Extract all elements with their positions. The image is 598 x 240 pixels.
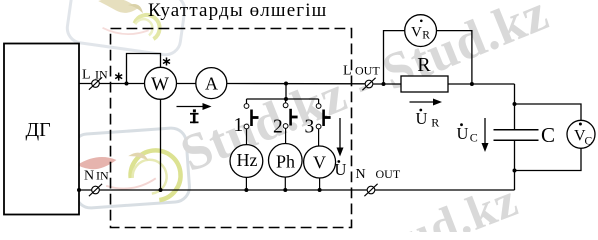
wire Ph meter lead xyxy=(284,177,286,190)
wire terminal to resistor xyxy=(373,83,402,85)
svg-text:C: C xyxy=(541,123,555,147)
voltmeter V_C xyxy=(567,120,595,148)
svg-text:U: U xyxy=(416,109,428,128)
wire Hz meter lead xyxy=(245,177,247,190)
V_C branch nodes xyxy=(513,102,517,106)
capacitor C plates xyxy=(494,129,539,131)
node to switches xyxy=(284,82,288,86)
terminal L OUT xyxy=(362,78,375,90)
watermark logo bottom-left xyxy=(72,127,191,209)
label U_R dotted xyxy=(416,109,440,130)
svg-text:A: A xyxy=(205,74,218,94)
voltage arrow U_R xyxy=(410,99,443,106)
svg-text:R: R xyxy=(431,116,439,130)
label L OUT xyxy=(343,63,380,78)
junction Hz-N bus xyxy=(244,188,248,192)
svg-text:2: 2 xyxy=(273,117,283,138)
dashed boundary of power meter xyxy=(111,29,352,228)
wire L from generator to terminal xyxy=(79,83,145,85)
svg-text:R: R xyxy=(417,54,431,76)
switch S1 xyxy=(244,99,258,145)
node V_R tap left xyxy=(382,82,386,86)
wattmeter W xyxy=(145,67,177,99)
wire V_R branch left xyxy=(384,31,405,84)
label N IN xyxy=(84,168,109,183)
node on bus xyxy=(284,97,288,101)
svg-text:W: W xyxy=(151,74,169,95)
junction W-N bus xyxy=(159,188,163,192)
capacitor branch vertical wire bottom xyxy=(514,141,516,190)
voltmeter V_R xyxy=(405,15,437,47)
svg-text:Ph: Ph xyxy=(276,152,295,172)
current arrow I xyxy=(177,103,212,110)
svg-text:L: L xyxy=(343,64,352,79)
junction N bus at generator xyxy=(77,188,81,192)
wire V_R branch right xyxy=(437,31,472,84)
svg-text:Stud.kz: Stud.kz xyxy=(354,173,525,232)
terminal L IN xyxy=(89,77,102,89)
svg-text:3: 3 xyxy=(305,117,315,138)
switch S2 xyxy=(283,99,297,144)
svg-text:L: L xyxy=(82,68,91,83)
voltage arrow U xyxy=(337,118,344,157)
wire V meter lead xyxy=(319,178,321,190)
junction Ph-N bus xyxy=(283,188,287,192)
node V_R tap right xyxy=(470,82,474,86)
svg-text:U: U xyxy=(457,124,469,143)
switch bus wire xyxy=(247,98,319,100)
junction V-N bus xyxy=(318,188,322,192)
label N OUT xyxy=(356,167,401,182)
polarity star at W top xyxy=(163,58,170,66)
svg-text:IN: IN xyxy=(95,68,108,82)
wire W voltage coil bypass xyxy=(127,54,161,84)
svg-text:V: V xyxy=(313,153,326,173)
V_C branch wires xyxy=(515,104,582,120)
switch S3 xyxy=(316,99,330,146)
wire wattmeter bottom lead xyxy=(160,99,162,190)
svg-text:OUT: OUT xyxy=(355,63,380,77)
wire N bus xyxy=(79,189,515,191)
wire W to A xyxy=(177,83,196,85)
label U dotted xyxy=(335,160,347,179)
wire A to L OUT terminal xyxy=(227,83,366,85)
voltage arrow U_C xyxy=(482,118,489,152)
frequency meter Hz xyxy=(230,145,263,178)
svg-text:ДГ: ДГ xyxy=(26,119,51,141)
svg-text:1: 1 xyxy=(234,115,244,136)
voltmeter V xyxy=(304,146,336,178)
phase meter Ph xyxy=(269,144,303,178)
label I dotted xyxy=(190,109,199,123)
svg-text:OUT: OUT xyxy=(376,167,401,181)
label L IN xyxy=(82,68,108,83)
svg-text:N: N xyxy=(356,167,366,182)
svg-text:C: C xyxy=(470,130,478,144)
capacitor branch vertical wire top xyxy=(514,84,516,129)
generator DG box xyxy=(4,44,79,215)
svg-text:Куаттарды өлшегіш: Куаттарды өлшегіш xyxy=(148,0,327,21)
svg-text:Hz: Hz xyxy=(237,150,258,170)
terminal N OUT xyxy=(364,184,377,196)
label U_C dotted xyxy=(457,123,478,144)
svg-text:N: N xyxy=(84,168,94,183)
polarity star left xyxy=(115,73,122,81)
node junction at W voltage tap xyxy=(125,82,129,86)
svg-text:C: C xyxy=(585,135,593,147)
svg-text:U: U xyxy=(335,160,347,179)
terminal N IN xyxy=(89,184,102,196)
watermark logo top-left xyxy=(65,0,186,57)
wire down to switch bus xyxy=(285,84,287,100)
wire resistor to cap branch xyxy=(448,83,515,85)
svg-text:IN: IN xyxy=(96,168,109,182)
svg-text:V: V xyxy=(411,25,422,41)
resistor R xyxy=(401,76,448,92)
svg-text:R: R xyxy=(422,30,430,42)
ammeter A xyxy=(196,68,227,99)
